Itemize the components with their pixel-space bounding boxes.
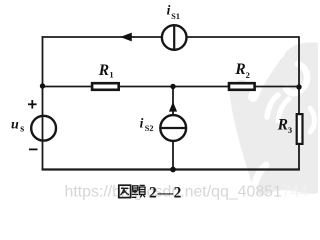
wire iS2 branch vertical [172, 87, 174, 170]
watermark blob [230, 42, 318, 196]
svg-text:i: i [140, 116, 144, 131]
polarity plus [28, 100, 37, 109]
current source iS2 [160, 115, 186, 141]
svg-text:S2: S2 [145, 124, 154, 133]
wire middle horizontal [43, 86, 300, 88]
voltage source us (circle under wire) [31, 116, 56, 141]
wire right vertical [298, 36, 300, 169]
svg-text:1: 1 [109, 70, 113, 80]
resistor R3 [297, 114, 303, 144]
arrow iS2 (pointing up) [169, 102, 177, 112]
svg-text:R: R [277, 117, 288, 134]
polarity minus [29, 148, 38, 150]
svg-text:S1: S1 [171, 12, 180, 21]
resistor R1 [92, 83, 119, 90]
node C junction dot (right) [296, 84, 301, 89]
caption: hanzi TU (figure) [119, 185, 131, 197]
arrow on top wire (current direction, pointing left) [120, 33, 132, 42]
current source U iS1 [162, 25, 187, 50]
svg-text:i: i [167, 2, 171, 17]
svg-text:R: R [98, 62, 109, 79]
svg-text:u: u [11, 117, 19, 132]
svg-text:s: s [20, 124, 24, 135]
node B junction dot (middle) [170, 84, 175, 89]
svg-text:2: 2 [246, 70, 250, 80]
svg-text:https://blog.csdn.net/qq_40851: https://blog.csdn.net/qq_40851744 [65, 184, 309, 201]
wire left vertical [42, 36, 44, 169]
caption: hanzi TI (problem) [132, 185, 145, 197]
node A junction dot (left) [40, 83, 45, 88]
svg-text:R: R [234, 61, 245, 78]
wire top (node 1 to node 3 via iS1) [42, 36, 300, 38]
node D junction dot (bottom) [170, 167, 176, 173]
wire bottom [42, 168, 300, 170]
resistor R2 [229, 83, 255, 90]
svg-text:2—2: 2—2 [149, 184, 182, 201]
svg-text:3: 3 [288, 125, 292, 135]
